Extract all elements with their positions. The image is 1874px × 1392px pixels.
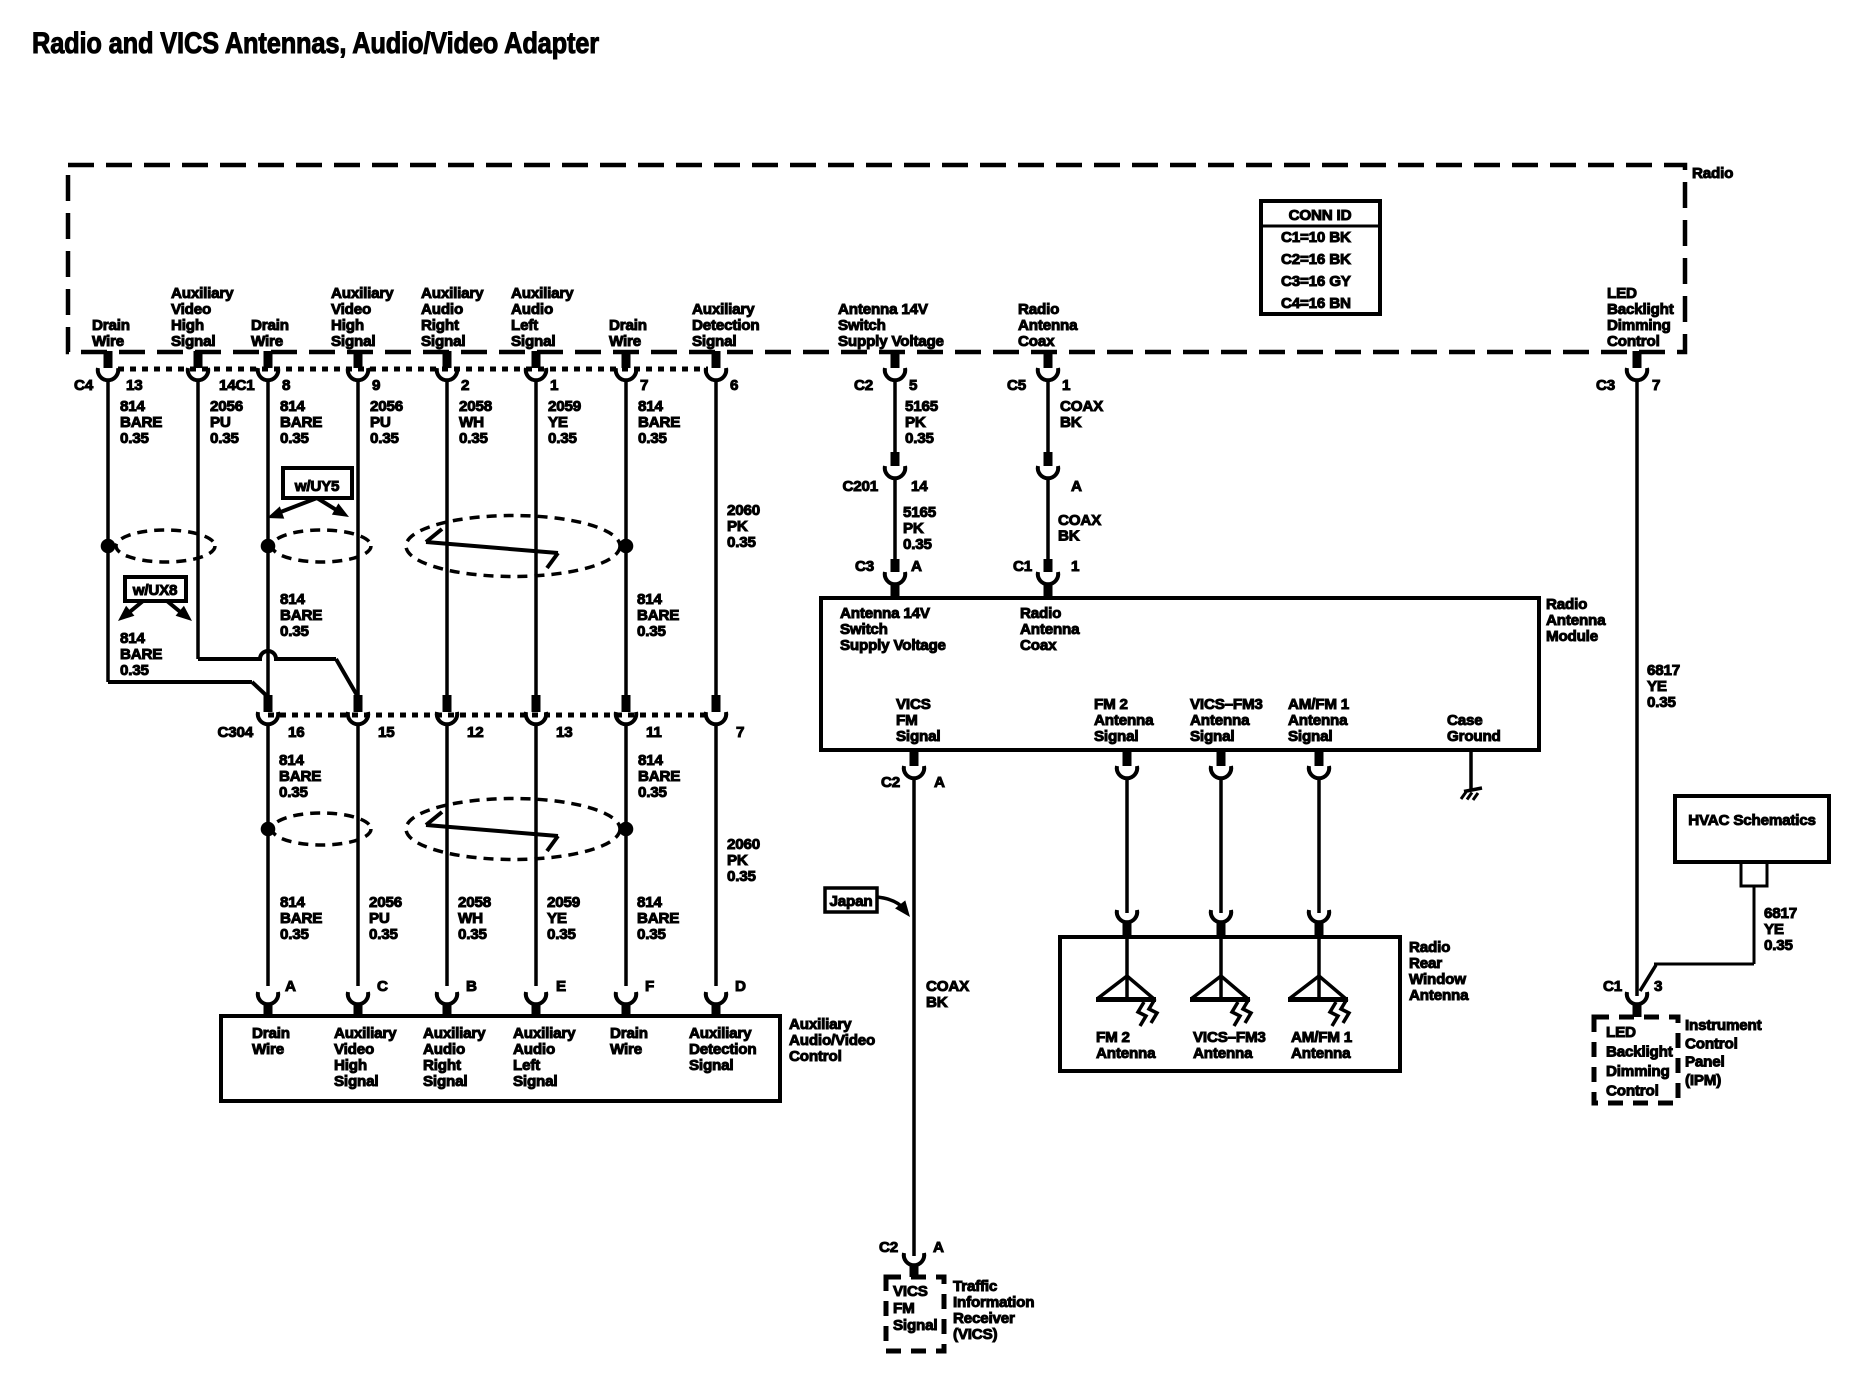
svg-text:A: A	[1071, 478, 1082, 495]
svg-text:YE: YE	[1647, 678, 1667, 695]
svg-text:C4: C4	[74, 377, 94, 394]
svg-text:Antenna: Antenna	[1546, 612, 1606, 629]
svg-text:C4=16 BN: C4=16 BN	[1281, 295, 1351, 312]
svg-text:0.35: 0.35	[638, 784, 668, 801]
svg-text:BARE: BARE	[638, 768, 680, 785]
svg-text:2: 2	[461, 377, 469, 394]
svg-text:Video: Video	[171, 301, 211, 318]
svg-text:PK: PK	[727, 518, 748, 535]
svg-text:0.35: 0.35	[458, 926, 488, 943]
svg-text:COAX: COAX	[1060, 398, 1103, 415]
svg-text:Backlight: Backlight	[1606, 1044, 1673, 1061]
svg-text:Antenna 14V: Antenna 14V	[840, 605, 931, 622]
svg-text:814: 814	[637, 894, 662, 911]
svg-text:Radio: Radio	[1018, 301, 1059, 318]
svg-text:Traffic: Traffic	[953, 1278, 997, 1295]
svg-text:Auxiliary: Auxiliary	[171, 285, 234, 302]
svg-text:0.35: 0.35	[547, 926, 577, 943]
svg-text:2060: 2060	[727, 502, 760, 519]
svg-text:13: 13	[126, 377, 143, 394]
svg-text:C201: C201	[842, 478, 878, 495]
svg-text:C2: C2	[881, 774, 900, 791]
svg-text:Right: Right	[421, 317, 459, 334]
svg-text:0.35: 0.35	[210, 430, 240, 447]
svg-text:C5: C5	[1007, 377, 1027, 394]
svg-text:2056: 2056	[210, 398, 243, 415]
svg-text:Signal: Signal	[1094, 728, 1138, 745]
svg-text:C3: C3	[1596, 377, 1615, 394]
svg-text:0.35: 0.35	[727, 534, 757, 551]
svg-text:Switch: Switch	[840, 621, 888, 638]
svg-text:Drain: Drain	[609, 317, 647, 334]
svg-text:7: 7	[1652, 377, 1660, 394]
svg-text:FM 2: FM 2	[1096, 1029, 1130, 1046]
svg-text:Signal: Signal	[692, 333, 736, 350]
svg-text:BARE: BARE	[637, 607, 679, 624]
svg-text:2058: 2058	[459, 398, 492, 415]
svg-text:814: 814	[638, 398, 663, 415]
svg-text:Auxiliary: Auxiliary	[334, 1025, 397, 1042]
svg-text:C2: C2	[879, 1239, 898, 1256]
svg-text:0.35: 0.35	[905, 430, 935, 447]
svg-text:Control: Control	[1606, 1083, 1659, 1100]
svg-text:Antenna: Antenna	[1288, 712, 1348, 729]
svg-text:0.35: 0.35	[637, 623, 667, 640]
svg-text:Signal: Signal	[513, 1073, 557, 1090]
svg-text:814: 814	[637, 591, 662, 608]
svg-text:Left: Left	[513, 1057, 540, 1074]
svg-text:C: C	[377, 978, 388, 995]
svg-text:Audio/Video: Audio/Video	[789, 1032, 875, 1049]
svg-text:A: A	[934, 774, 945, 791]
svg-text:0.35: 0.35	[548, 430, 578, 447]
svg-text:Signal: Signal	[423, 1073, 467, 1090]
svg-text:5165: 5165	[905, 398, 939, 415]
svg-text:Antenna: Antenna	[1094, 712, 1154, 729]
svg-text:BK: BK	[1058, 528, 1080, 545]
svg-text:(VICS): (VICS)	[953, 1326, 998, 1343]
svg-text:BARE: BARE	[120, 414, 162, 431]
svg-text:Signal: Signal	[171, 333, 215, 350]
svg-text:C1: C1	[1013, 558, 1033, 575]
svg-text:0.35: 0.35	[459, 430, 489, 447]
svg-text:Drain: Drain	[252, 1025, 290, 1042]
svg-text:Window: Window	[1409, 971, 1466, 988]
svg-text:w/UX8: w/UX8	[132, 582, 178, 599]
svg-text:Japan: Japan	[830, 893, 873, 910]
svg-text:Coax: Coax	[1018, 333, 1055, 350]
svg-text:Antenna: Antenna	[1020, 621, 1080, 638]
svg-text:C3: C3	[855, 558, 874, 575]
svg-text:Rear: Rear	[1409, 955, 1442, 972]
svg-text:BARE: BARE	[637, 910, 679, 927]
svg-text:Signal: Signal	[1190, 728, 1234, 745]
svg-text:1: 1	[1071, 558, 1080, 575]
svg-text:Video: Video	[331, 301, 371, 318]
svg-text:PK: PK	[905, 414, 926, 431]
svg-text:High: High	[334, 1057, 367, 1074]
svg-text:Right: Right	[423, 1057, 461, 1074]
svg-text:6: 6	[730, 377, 738, 394]
svg-text:Antenna: Antenna	[1096, 1045, 1156, 1062]
svg-text:Antenna: Antenna	[1409, 987, 1469, 1004]
svg-text:1: 1	[550, 377, 559, 394]
svg-text:FM: FM	[893, 1300, 915, 1317]
svg-text:Antenna 14V: Antenna 14V	[838, 301, 929, 318]
svg-text:Signal: Signal	[421, 333, 465, 350]
svg-text:Case: Case	[1447, 712, 1483, 729]
svg-text:YE: YE	[1764, 921, 1784, 938]
svg-text:0.35: 0.35	[903, 536, 933, 553]
svg-text:C2=16 BK: C2=16 BK	[1281, 251, 1351, 268]
svg-text:High: High	[171, 317, 204, 334]
svg-text:VICS–FM3: VICS–FM3	[1193, 1029, 1266, 1046]
svg-text:0.35: 0.35	[280, 430, 310, 447]
svg-text:814: 814	[120, 630, 145, 647]
svg-text:C304: C304	[217, 724, 253, 741]
svg-text:5: 5	[909, 377, 918, 394]
svg-text:7: 7	[640, 377, 648, 394]
svg-text:YE: YE	[547, 910, 567, 927]
svg-text:BARE: BARE	[280, 910, 322, 927]
svg-text:15: 15	[378, 724, 395, 741]
svg-text:Signal: Signal	[1288, 728, 1332, 745]
svg-text:Wire: Wire	[252, 1041, 284, 1058]
svg-text:PK: PK	[903, 520, 924, 537]
svg-text:AM/FM 1: AM/FM 1	[1288, 696, 1350, 713]
svg-text:F: F	[645, 978, 654, 995]
svg-text:Video: Video	[334, 1041, 374, 1058]
svg-text:0.35: 0.35	[369, 926, 399, 943]
svg-text:Signal: Signal	[511, 333, 555, 350]
svg-text:Signal: Signal	[334, 1073, 378, 1090]
svg-text:8: 8	[282, 377, 290, 394]
svg-text:Coax: Coax	[1020, 637, 1057, 654]
svg-text:COAX: COAX	[1058, 512, 1101, 529]
svg-text:6817: 6817	[1647, 662, 1680, 679]
svg-text:0.35: 0.35	[280, 623, 310, 640]
svg-text:14: 14	[911, 478, 928, 495]
svg-text:Drain: Drain	[92, 317, 130, 334]
svg-text:12: 12	[467, 724, 484, 741]
svg-text:Drain: Drain	[610, 1025, 648, 1042]
svg-text:0.35: 0.35	[370, 430, 400, 447]
svg-text:w/UY5: w/UY5	[294, 478, 340, 495]
svg-text:2056: 2056	[369, 894, 402, 911]
svg-text:Auxiliary: Auxiliary	[689, 1025, 752, 1042]
svg-text:3: 3	[1654, 978, 1662, 995]
svg-text:Backlight: Backlight	[1607, 301, 1674, 318]
svg-text:BARE: BARE	[120, 646, 162, 663]
svg-text:Auxiliary: Auxiliary	[789, 1016, 852, 1033]
svg-text:Radio: Radio	[1692, 165, 1733, 182]
svg-text:0.35: 0.35	[637, 926, 667, 943]
svg-text:Wire: Wire	[251, 333, 283, 350]
svg-text:Antenna: Antenna	[1291, 1045, 1351, 1062]
svg-text:Radio: Radio	[1409, 939, 1450, 956]
svg-text:C3=16 GY: C3=16 GY	[1281, 273, 1351, 290]
svg-text:CONN ID: CONN ID	[1289, 207, 1352, 224]
svg-text:814: 814	[280, 591, 305, 608]
svg-text:Detection: Detection	[692, 317, 759, 334]
svg-text:Switch: Switch	[838, 317, 886, 334]
svg-text:BARE: BARE	[638, 414, 680, 431]
svg-text:BARE: BARE	[280, 414, 322, 431]
svg-text:Auxiliary: Auxiliary	[331, 285, 394, 302]
svg-text:Audio: Audio	[423, 1041, 465, 1058]
svg-text:Dimming: Dimming	[1606, 1063, 1670, 1080]
svg-text:Auxiliary: Auxiliary	[423, 1025, 486, 1042]
svg-text:814: 814	[280, 894, 305, 911]
svg-text:13: 13	[556, 724, 573, 741]
svg-text:Supply Voltage: Supply Voltage	[840, 637, 946, 654]
svg-text:High: High	[331, 317, 364, 334]
svg-text:2056: 2056	[370, 398, 403, 415]
svg-text:A: A	[285, 978, 296, 995]
svg-text:PU: PU	[370, 414, 391, 431]
svg-text:Antenna: Antenna	[1190, 712, 1250, 729]
svg-text:Auxiliary: Auxiliary	[421, 285, 484, 302]
svg-text:BK: BK	[926, 994, 948, 1011]
svg-text:PU: PU	[210, 414, 231, 431]
svg-text:Audio: Audio	[421, 301, 463, 318]
svg-text:16: 16	[288, 724, 305, 741]
svg-text:814: 814	[280, 398, 305, 415]
svg-text:0.35: 0.35	[1647, 694, 1677, 711]
svg-text:2059: 2059	[547, 894, 580, 911]
svg-text:814: 814	[279, 752, 304, 769]
svg-text:2059: 2059	[548, 398, 581, 415]
svg-text:Radio and VICS Antennas, Audio: Radio and VICS Antennas, Audio/Video Ada…	[32, 27, 599, 60]
svg-text:WH: WH	[458, 910, 483, 927]
svg-text:Panel: Panel	[1685, 1054, 1725, 1071]
svg-text:BK: BK	[1060, 414, 1082, 431]
svg-text:C2: C2	[854, 377, 873, 394]
svg-text:BARE: BARE	[280, 607, 322, 624]
svg-text:Radio: Radio	[1020, 605, 1061, 622]
svg-text:Receiver: Receiver	[953, 1310, 1015, 1327]
svg-text:0.35: 0.35	[279, 784, 309, 801]
svg-text:WH: WH	[459, 414, 484, 431]
svg-text:Antenna: Antenna	[1193, 1045, 1253, 1062]
svg-text:2058: 2058	[458, 894, 491, 911]
svg-text:E: E	[556, 978, 566, 995]
svg-text:Signal: Signal	[893, 1317, 937, 1334]
svg-text:0.35: 0.35	[280, 926, 310, 943]
svg-text:0.35: 0.35	[638, 430, 668, 447]
svg-text:Wire: Wire	[609, 333, 641, 350]
svg-text:Control: Control	[1685, 1035, 1738, 1052]
svg-text:14C1: 14C1	[219, 377, 255, 394]
svg-text:Auxiliary: Auxiliary	[513, 1025, 576, 1042]
svg-text:0.35: 0.35	[727, 868, 757, 885]
svg-text:Audio: Audio	[513, 1041, 555, 1058]
svg-text:PU: PU	[369, 910, 390, 927]
svg-text:VICS: VICS	[893, 1283, 928, 1300]
svg-text:VICS: VICS	[896, 696, 931, 713]
svg-text:PK: PK	[727, 852, 748, 869]
svg-text:C1: C1	[1603, 978, 1623, 995]
svg-text:Instrument: Instrument	[1685, 1017, 1762, 1034]
svg-text:1: 1	[1062, 377, 1071, 394]
svg-text:Antenna: Antenna	[1018, 317, 1078, 334]
svg-text:Supply Voltage: Supply Voltage	[838, 333, 944, 350]
svg-text:5165: 5165	[903, 504, 937, 521]
svg-text:FM: FM	[896, 712, 918, 729]
svg-text:AM/FM 1: AM/FM 1	[1291, 1029, 1353, 1046]
svg-text:Radio: Radio	[1546, 596, 1587, 613]
svg-text:D: D	[735, 978, 746, 995]
svg-text:0.35: 0.35	[1764, 937, 1794, 954]
svg-text:0.35: 0.35	[120, 430, 150, 447]
svg-text:2060: 2060	[727, 836, 760, 853]
svg-text:B: B	[466, 978, 477, 995]
svg-text:C1=10 BK: C1=10 BK	[1281, 229, 1351, 246]
svg-text:Signal: Signal	[689, 1057, 733, 1074]
svg-text:Control: Control	[1607, 333, 1660, 350]
svg-text:Signal: Signal	[896, 728, 940, 745]
svg-text:Control: Control	[789, 1048, 842, 1065]
svg-text:(IPM): (IPM)	[1685, 1072, 1721, 1089]
svg-text:Information: Information	[953, 1294, 1034, 1311]
svg-text:Wire: Wire	[610, 1041, 642, 1058]
svg-text:Signal: Signal	[331, 333, 375, 350]
svg-text:FM 2: FM 2	[1094, 696, 1128, 713]
svg-text:814: 814	[638, 752, 663, 769]
svg-text:Drain: Drain	[251, 317, 289, 334]
svg-text:Ground: Ground	[1447, 728, 1501, 745]
svg-text:VICS–FM3: VICS–FM3	[1190, 696, 1263, 713]
svg-text:YE: YE	[548, 414, 568, 431]
svg-text:HVAC Schematics: HVAC Schematics	[1688, 812, 1816, 829]
svg-text:Auxiliary: Auxiliary	[511, 285, 574, 302]
svg-text:Detection: Detection	[689, 1041, 756, 1058]
svg-text:Auxiliary: Auxiliary	[692, 301, 755, 318]
svg-text:6817: 6817	[1764, 905, 1797, 922]
svg-text:LED: LED	[1606, 1024, 1636, 1041]
svg-text:Wire: Wire	[92, 333, 124, 350]
svg-text:Dimming: Dimming	[1607, 317, 1671, 334]
svg-text:814: 814	[120, 398, 145, 415]
svg-text:7: 7	[736, 724, 744, 741]
svg-text:Audio: Audio	[511, 301, 553, 318]
svg-text:9: 9	[372, 377, 380, 394]
svg-text:Left: Left	[511, 317, 538, 334]
svg-text:11: 11	[646, 724, 662, 741]
svg-text:A: A	[933, 1239, 944, 1256]
svg-text:COAX: COAX	[926, 978, 969, 995]
svg-text:LED: LED	[1607, 285, 1637, 302]
svg-text:A: A	[911, 558, 922, 575]
svg-text:0.35: 0.35	[120, 662, 150, 679]
svg-text:BARE: BARE	[279, 768, 321, 785]
svg-text:Module: Module	[1546, 628, 1598, 645]
